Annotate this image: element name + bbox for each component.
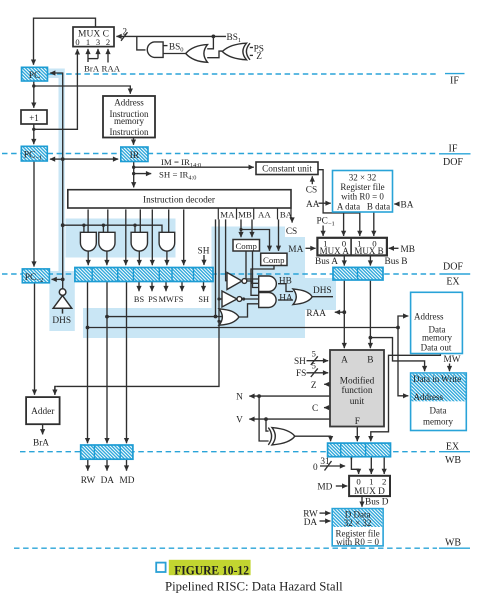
svg-text:DA: DA [101, 476, 115, 486]
wire: MW into data memory write [449, 364, 451, 372]
wire: DA out of WB register [106, 459, 108, 471]
svg-text:Write: Write [441, 374, 461, 384]
wire: RAA to MUX C input 2 [107, 49, 109, 63]
svg-text:MD: MD [317, 483, 332, 493]
and gate control 2 (pointing down) [99, 232, 115, 251]
wire: comb line to Adder input [55, 219, 219, 394]
svg-text:2: 2 [123, 27, 128, 37]
svg-text:SH: SH [198, 247, 210, 257]
highlight: inverter DHS area [49, 271, 74, 331]
register Bus A Bus B EX register [333, 267, 383, 280]
wire: N status output [249, 395, 330, 397]
svg-text:IF: IF [450, 76, 459, 87]
and gate BS0 (left pointing) [147, 42, 163, 58]
wire: data out to MUX D input 2 [383, 457, 385, 474]
wire: PS input stub [250, 47, 253, 49]
wire: MB select into MUX B [389, 247, 399, 249]
wire: DA into write register file [320, 520, 331, 522]
wire: decoder output to AND gate 2 [107, 209, 109, 232]
wire: DOF/EX stage boundary dashed line [2, 273, 470, 275]
svg-text:Address: Address [114, 98, 144, 108]
svg-text:2: 2 [382, 477, 386, 487]
svg-text:A data: A data [337, 201, 360, 211]
wire: inverter 1 output to HB gate [247, 281, 259, 283]
highlight: hazard cluster right part [285, 237, 305, 338]
svg-text:Z: Z [311, 381, 317, 391]
svg-text:Pipelined RISC: Data Hazard St: Pipelined RISC: Data Hazard Stall [165, 580, 343, 594]
or gate DHS [293, 289, 312, 305]
svg-text:HB: HB [279, 276, 292, 286]
svg-text:Data out: Data out [421, 343, 452, 353]
inverter DHS (pointing up) [53, 289, 71, 314]
svg-text:EX: EX [446, 441, 460, 452]
svg-text:Register file: Register file [340, 182, 384, 192]
highlight: DHS stall path stub into PC [48, 69, 65, 79]
svg-text:FIGURE 10-12: FIGURE 10-12 [174, 563, 249, 577]
svg-text:memory: memory [422, 333, 452, 343]
wire: DHS output [312, 296, 333, 298]
wire: XOR output to OR gate input [207, 51, 222, 58]
wire: decoder MD field to pipeline register [183, 209, 185, 265]
svg-text:function: function [342, 385, 373, 396]
wire: RW out of WB register [87, 459, 89, 471]
svg-text:3: 3 [96, 37, 100, 47]
wire: zero fill slash 31 [325, 461, 332, 471]
svg-text:MA: MA [288, 245, 303, 255]
svg-text:MW: MW [444, 355, 461, 365]
wire: MA select into MUX A [306, 247, 316, 249]
wire: SH into pipeline register [203, 255, 205, 265]
wire: PS output of pipeline register [151, 282, 153, 292]
wire: PC-1 value to MUX A input 1 [322, 226, 324, 237]
svg-text:Comp: Comp [263, 255, 285, 265]
wire: OR output to AND input [163, 53, 186, 55]
wire: CS to constant unit select [311, 176, 313, 184]
svg-text:DOF: DOF [443, 157, 463, 168]
wire: Bus A into EX register [343, 255, 345, 265]
mux MUX C [73, 27, 114, 47]
inverter hazard 1 [227, 273, 247, 290]
and gate control 1 (pointing down) [80, 232, 96, 251]
svg-text:1: 1 [369, 477, 373, 487]
comparator Comp 2 [261, 253, 287, 265]
wire: Z status output [324, 383, 330, 385]
wire: DHS enable vertical [50, 73, 63, 290]
wire: A data to MUX A input 0 [343, 212, 345, 236]
wire: BS output of pipeline register [138, 282, 140, 292]
svg-text:C: C [312, 404, 318, 414]
wire: address distribution from RW tap [88, 327, 399, 329]
wire: stub into inverter 2 [219, 298, 222, 300]
wire: IM field to constant unit [134, 166, 254, 168]
svg-text:MUX A: MUX A [320, 246, 350, 256]
wire: FS output of pipeline register [181, 282, 183, 292]
svg-text:CS: CS [306, 185, 317, 195]
svg-text:Data in: Data in [413, 374, 440, 384]
wire: AND gate 3 output to pipeline register [138, 251, 140, 265]
wire: comparator 1 second output to HB gate [253, 251, 259, 288]
svg-text:B data: B data [367, 201, 390, 211]
svg-text:SH: SH [198, 295, 209, 304]
svg-text:MD: MD [120, 476, 135, 486]
highlight: hazard detection cluster [212, 227, 286, 339]
memory data memory read port [411, 292, 463, 353]
constant unit [256, 162, 318, 175]
wire: RW down to WB register [87, 282, 89, 444]
svg-text:memory: memory [423, 417, 453, 427]
svg-text:0: 0 [75, 37, 79, 47]
wire: MW output of pipeline register [165, 282, 167, 292]
wire: decoder output to AND gate 4 [168, 209, 170, 232]
svg-text:RAA: RAA [306, 309, 326, 319]
wire: SH field stub [134, 173, 152, 175]
highlight: DHS stall vertical band [59, 69, 65, 272]
svg-text:MUX C: MUX C [78, 30, 109, 40]
wire: enable to IR [63, 158, 118, 160]
wire: BA line to comparator 2 [278, 219, 280, 251]
wire: F result to MUX D input 1 [370, 457, 372, 474]
wire: branch to comparator 2 left input [241, 230, 270, 251]
wire: C status output [324, 407, 330, 409]
wire: bus width slash 2 [121, 32, 128, 41]
svg-text:31: 31 [320, 457, 330, 467]
svg-text:FS: FS [174, 295, 184, 304]
svg-text:EX: EX [446, 277, 460, 288]
or gate branch select (left pointing) [186, 45, 208, 63]
wire: V branch into XOR [266, 419, 269, 431]
svg-text:Bus B: Bus B [385, 257, 408, 267]
adder branch address Adder [26, 397, 60, 424]
wire: hazard OR gate output to HA gate [239, 304, 259, 317]
svg-text:32 × 32: 32 × 32 [344, 518, 372, 528]
svg-text:Address: Address [414, 392, 444, 402]
svg-text:DHS: DHS [313, 286, 332, 296]
alu modified function unit [330, 350, 384, 427]
svg-text:with R0 = 0: with R0 = 0 [341, 191, 384, 201]
wire: inverter 2 output to HA gate [242, 298, 259, 300]
svg-text:A: A [341, 356, 348, 366]
wire: Adder output BrA [42, 424, 44, 434]
wire: AND gate 1 output to pipeline register [87, 251, 89, 265]
wire: second line to comparator 1 [251, 219, 253, 237]
register DOF to EX pipeline register [75, 268, 213, 282]
svg-text:PC: PC [29, 71, 41, 81]
svg-text:IR: IR [130, 151, 140, 161]
svg-text:WB: WB [445, 538, 461, 549]
wire: enable to PC-2 [52, 278, 63, 280]
svg-text:F: F [355, 417, 360, 427]
svg-text:N: N [236, 393, 243, 403]
svg-text:1: 1 [86, 37, 90, 47]
svg-text:MA: MA [220, 210, 235, 220]
svg-text:Constant unit: Constant unit [262, 165, 312, 175]
caption figure highlight [169, 560, 251, 575]
svg-text:32 × 32: 32 × 32 [349, 172, 377, 182]
wire: FS into function unit [307, 372, 329, 374]
wire: incrementer output to PC-1 [33, 124, 35, 144]
inverter hazard 2 [222, 291, 242, 307]
caption figure marker square [156, 563, 165, 572]
wire: slt bit out of EX/WB register [350, 457, 352, 460]
svg-text:0: 0 [313, 463, 318, 473]
wire: decoder field to pipeline register [151, 209, 153, 265]
wire: HB output to DHS OR gate [278, 284, 293, 292]
wire: BrA to MUX C inputs 1 and 3 [87, 49, 89, 62]
svg-text:Z: Z [256, 52, 262, 62]
wire: SH output of pipeline register [203, 282, 205, 292]
svg-text:Data: Data [430, 405, 447, 415]
highlight: hazard band horizontal [83, 308, 213, 338]
svg-text:V: V [236, 416, 243, 426]
svg-text:Comp: Comp [235, 241, 257, 251]
svg-text:RW: RW [81, 476, 96, 486]
svg-text:IF: IF [449, 144, 458, 155]
wire: Bus A to function unit A [343, 280, 345, 348]
wire: AND gate 2 output to pipeline register [106, 251, 108, 265]
wire: Bus B to function unit B [369, 280, 371, 348]
wire: AND gate output up to select bundle [137, 36, 146, 50]
wire: WB stage end dashed line [14, 547, 470, 549]
wire: address to data memory write port [398, 328, 408, 396]
wire: instruction memory output to IR [133, 138, 135, 145]
svg-text:unit: unit [350, 397, 365, 407]
wire: RAA tap from Bus A [335, 311, 345, 313]
svg-text:Bus D: Bus D [365, 498, 389, 508]
wire: AND gate 4 output to pipeline register [166, 251, 168, 265]
wire: branch select bundle into MUX C [116, 35, 226, 37]
wire: decoder output to AND gate 1 [87, 209, 89, 232]
wire: SH bus slash 5 [311, 356, 318, 365]
wire: SH into function unit [307, 360, 329, 362]
wire: PC-2 output to Adder [34, 283, 36, 395]
svg-text:DOF: DOF [443, 262, 463, 273]
memory data memory write port [411, 373, 467, 431]
wire: address to data memory read port [398, 316, 408, 328]
wire: EX/WB stage boundary dashed line [20, 451, 470, 453]
wire: enable to PC-1 [50, 158, 63, 160]
svg-text:Modified: Modified [340, 375, 375, 386]
svg-text:AA: AA [306, 200, 320, 210]
adder +1 incrementer [21, 110, 47, 124]
wire: BA to register file [394, 203, 398, 205]
wire: function unit F output to EX/WB register [356, 427, 358, 442]
svg-text:Address: Address [414, 311, 444, 321]
register IR [121, 147, 148, 162]
svg-text:Instruction: Instruction [110, 127, 149, 137]
wire: PC-1 output to PC-2 [33, 161, 35, 267]
wire: BS1 branch down to OR gate [207, 36, 213, 48]
wire: IF stage boundary dashed line [48, 73, 465, 75]
svg-text:Bus A: Bus A [315, 257, 338, 267]
wire: Bus B into EX register [369, 255, 371, 265]
svg-text:HA: HA [279, 293, 293, 303]
and gate HB [259, 276, 277, 292]
svg-text:SH: SH [294, 357, 306, 367]
svg-text:B: B [367, 356, 373, 366]
and gate control 3 (pointing down) [131, 232, 147, 251]
xor gate branch condition [268, 428, 295, 445]
or gate hazard OR3 [219, 309, 239, 325]
mux MUX D [349, 476, 390, 497]
wire: DA down to WB register [106, 282, 108, 444]
wire: MD down to WB register [126, 282, 128, 444]
node junction dots [32, 35, 400, 422]
svg-text:RAA: RAA [102, 64, 121, 74]
svg-text:BA: BA [401, 201, 414, 211]
svg-text:BS: BS [134, 295, 145, 304]
register file 32x32 [333, 171, 393, 213]
svg-text:memory: memory [114, 116, 144, 126]
wire: comb MA line down to inverter 1 [226, 219, 227, 280]
wire: PC output down to incrementer [33, 81, 35, 108]
svg-text:MB: MB [401, 245, 415, 255]
highlight: DHS OR gate area [290, 278, 336, 310]
highlight: control AND gates region [66, 219, 176, 258]
svg-text:BrA: BrA [33, 438, 49, 448]
wire: PC output to instruction memory address [34, 86, 131, 94]
wire: MB line to comparator 1 [240, 219, 242, 237]
wire: IF/DOF stage boundary dashed line [2, 153, 471, 155]
wire: MD out of WB register [126, 459, 128, 471]
svg-text:with R0 = 0: with R0 = 0 [336, 537, 379, 547]
wire: decoder output to AND gate 3 [139, 209, 141, 232]
mux MUX A and MUX B [317, 238, 387, 256]
svg-text:PS: PS [148, 295, 158, 304]
wire: RW into write register file [320, 512, 331, 514]
wire: BS0 input stub [163, 45, 167, 47]
svg-text:WB: WB [445, 455, 461, 466]
wire: Bus D to register file write port [361, 496, 363, 507]
wire: comparator 2 output to HA gate [251, 266, 274, 296]
svg-text:+1: +1 [29, 113, 39, 123]
wire: N branch into XOR [259, 396, 269, 441]
svg-text:Adder: Adder [31, 407, 55, 417]
wire: Z input stub [250, 54, 253, 56]
wire: IR output to instruction decoder [133, 162, 135, 188]
register PC [22, 67, 48, 81]
wire: Bus B branch to data memory data in [370, 338, 424, 372]
decoder instruction decoder [68, 190, 291, 208]
wire: B data to MUX B input 0 [373, 212, 375, 236]
svg-text:FS: FS [296, 369, 306, 379]
wire: DA tap to hazard OR gate [107, 316, 222, 318]
comparator Comp 1 [233, 240, 260, 252]
wire: decoder DA field to pipeline register [125, 209, 127, 265]
wire: MD select into MUX D [336, 485, 348, 487]
and gate HA [259, 293, 276, 308]
register RW DA MD WB register [81, 445, 133, 459]
svg-text:5: 5 [312, 361, 316, 371]
register file write port D [332, 509, 383, 547]
register EX to WB pipeline register [328, 443, 391, 457]
wire: zero fill wire [320, 465, 345, 467]
wire: comparator 1 output to HB gate [246, 251, 259, 279]
wire: FS bus slash 5 [311, 368, 318, 377]
register PC-1 [21, 146, 47, 161]
svg-text:2: 2 [106, 37, 110, 47]
wire: comb line MA down to hazard logic [215, 219, 217, 316]
svg-text:DHS: DHS [52, 316, 71, 326]
wire: AA to register file [319, 202, 331, 204]
wire: incremented PC to MUX C input 0 [34, 49, 78, 129]
wire: V status output [249, 418, 330, 420]
svg-text:5: 5 [312, 349, 316, 359]
wire: HA output to DHS OR gate [278, 299, 293, 301]
svg-text:MW: MW [159, 295, 174, 304]
wire: stub into hazard OR gate lower input [219, 320, 222, 322]
svg-text:CS: CS [286, 227, 297, 237]
wire: CS output from decoder [291, 219, 293, 222]
svg-text:BrA: BrA [84, 64, 100, 74]
node decoder output field separators MA MB AA BA [218, 208, 291, 219]
wire: XOR output to EX/WB register [295, 436, 331, 441]
wire: constant unit output to MUX B input 1 [317, 170, 360, 236]
svg-text:DA: DA [304, 518, 318, 528]
memory instruction memory [103, 96, 155, 138]
register PC-2 [22, 269, 49, 284]
svg-text:MUX B: MUX B [354, 246, 383, 256]
xor gate PS Z (left pointing) [222, 43, 250, 60]
svg-text:BA: BA [280, 210, 293, 220]
svg-text:AA: AA [258, 210, 271, 220]
svg-text:0: 0 [356, 477, 361, 487]
wire: enable to control AND gates [63, 225, 162, 232]
wire: data out to EX/WB register [371, 354, 441, 442]
wire: MUX C output to PC [34, 18, 96, 65]
svg-text:MB: MB [238, 210, 252, 220]
svg-text:Instruction decoder: Instruction decoder [143, 195, 216, 205]
svg-text:MUX D: MUX D [354, 487, 385, 497]
and gate control 4 (pointing down) [159, 232, 175, 251]
wire: slt padded to MUX D input 0 [351, 466, 358, 474]
